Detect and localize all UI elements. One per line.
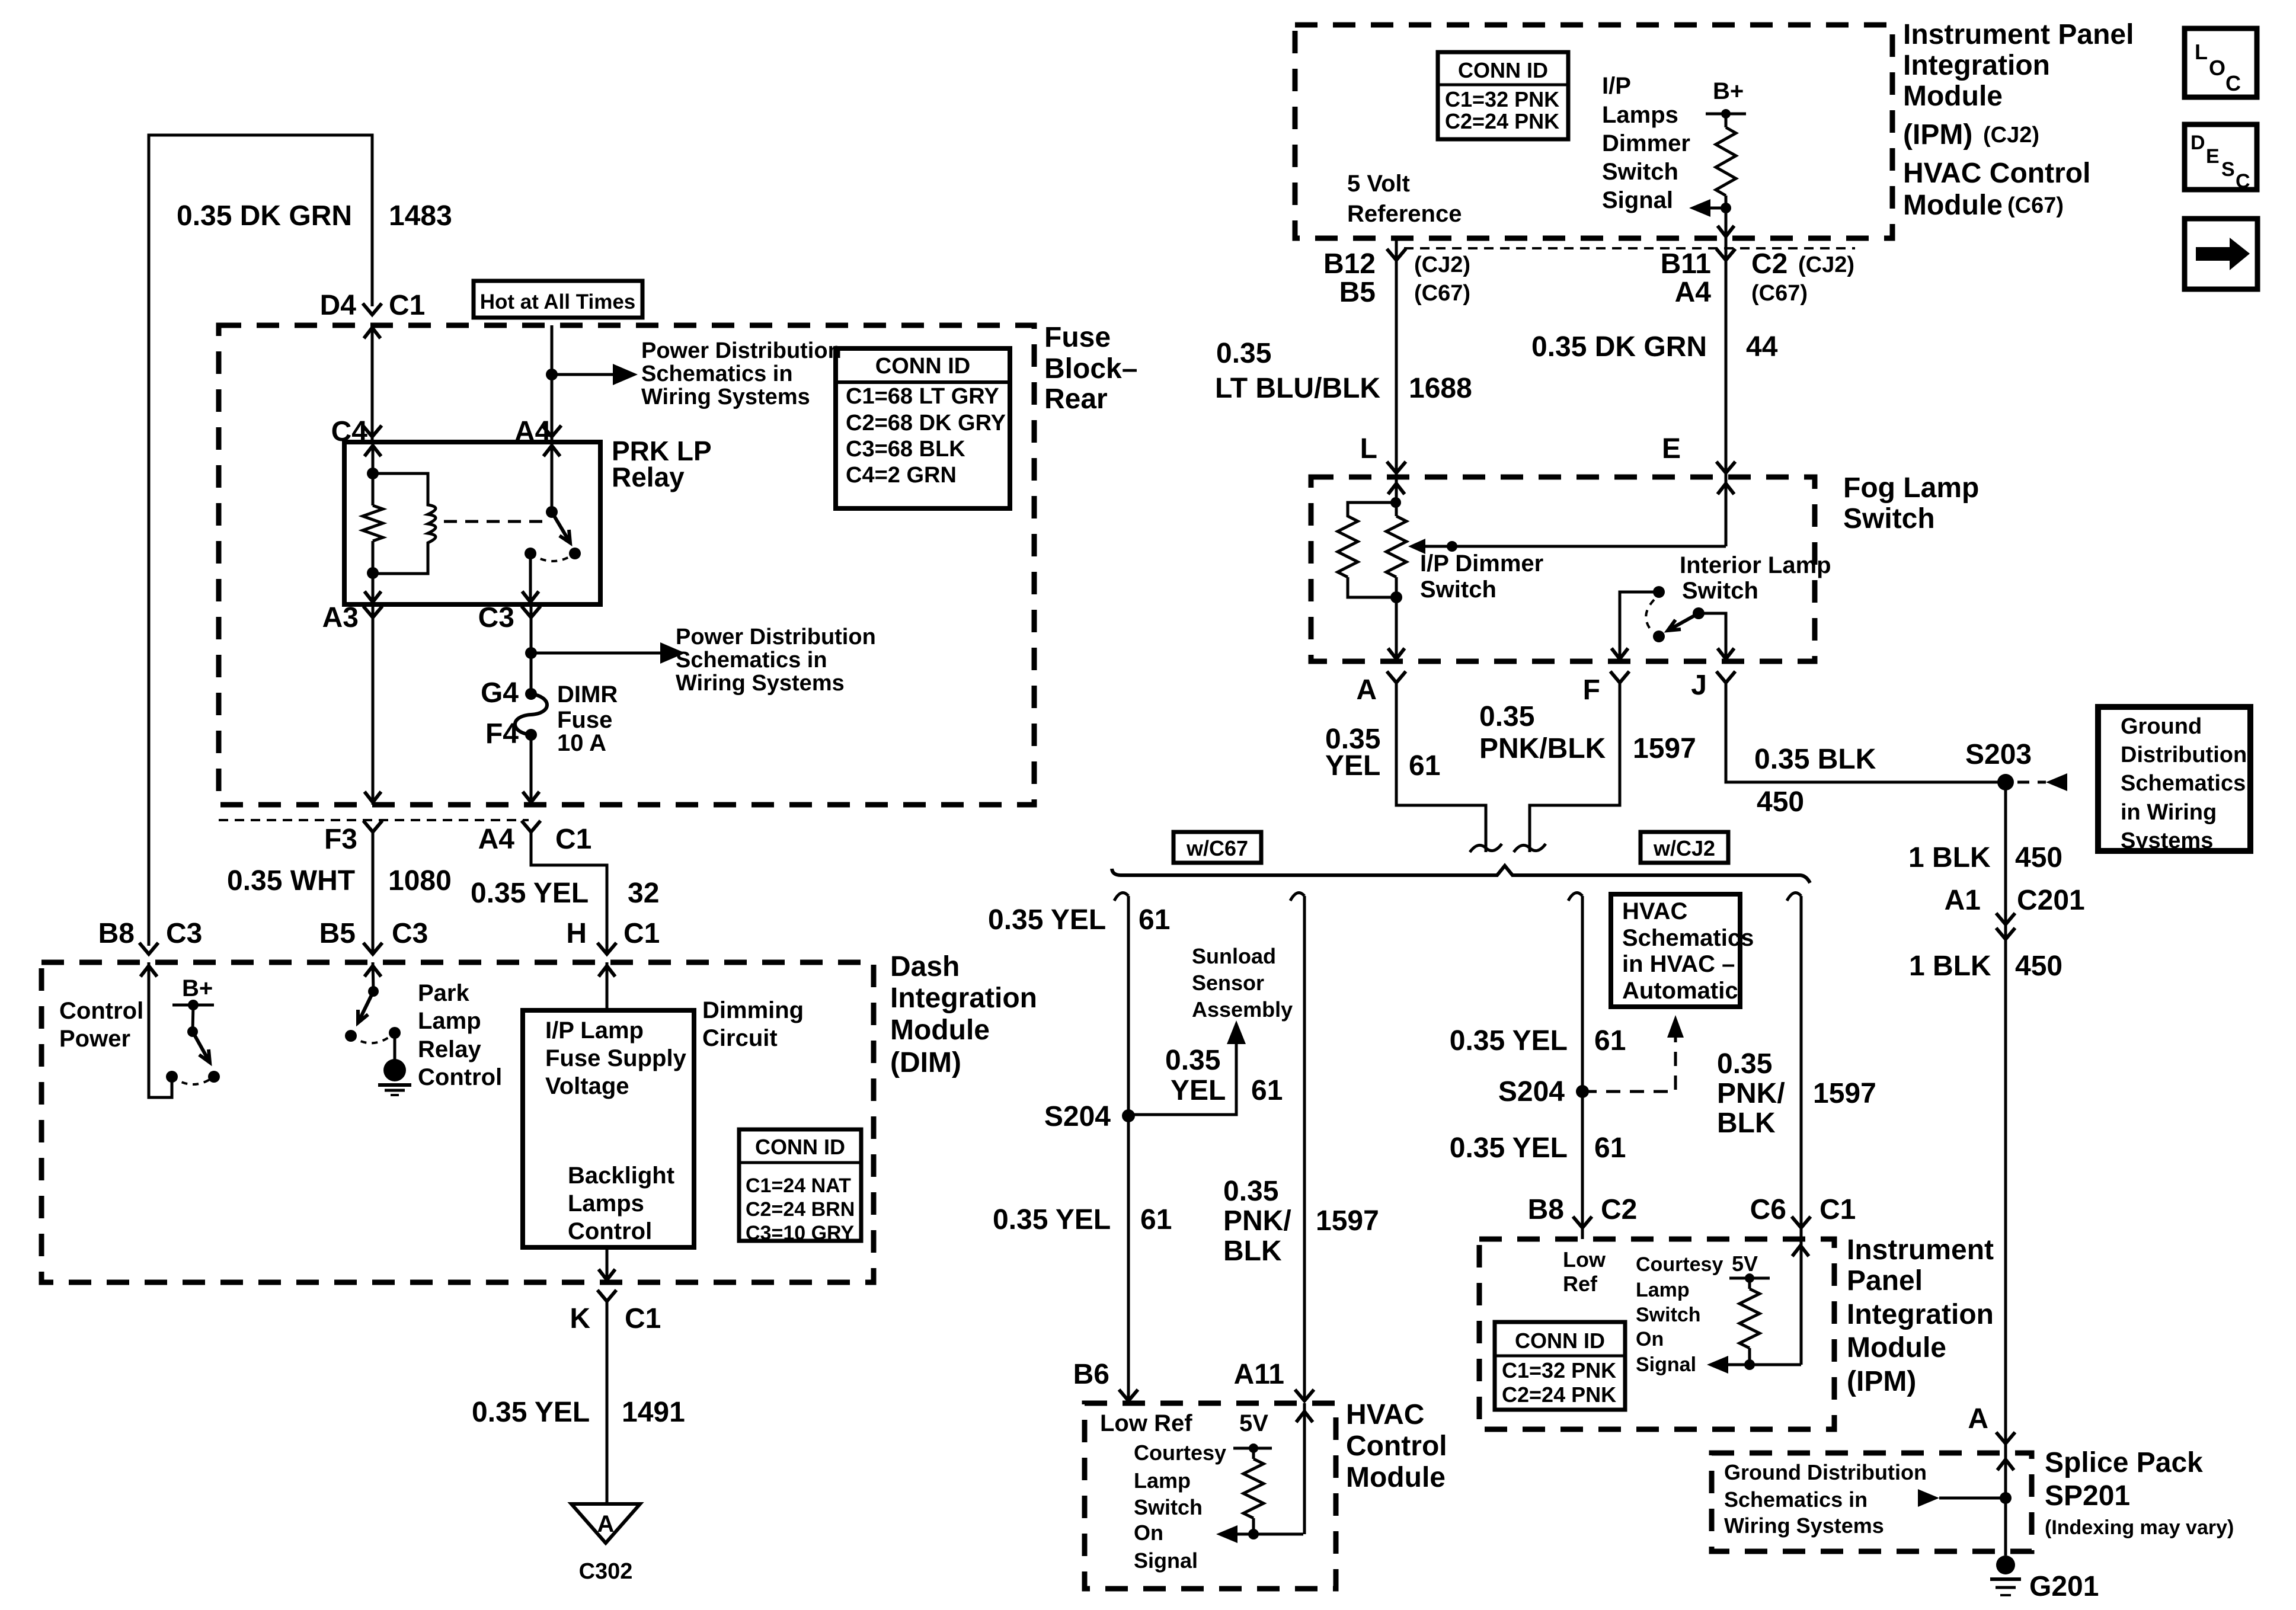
- wire D4 into fuse block: [371, 325, 374, 442]
- arrow from ground distribution to splice: [1918, 1489, 2006, 1507]
- courtesy signal dot HVAC: [1248, 1529, 1259, 1539]
- svg-text:C302: C302: [579, 1559, 633, 1584]
- wire interior switch to F: [1620, 592, 1659, 661]
- svg-text:(DIM): (DIM): [890, 1047, 961, 1078]
- B+ terminal bar: [172, 1004, 214, 1007]
- park lamp switch contact dot left: [345, 1030, 357, 1042]
- svg-text:61: 61: [1251, 1075, 1283, 1106]
- arrow up at fuse block top edge: [364, 328, 380, 338]
- relay switch contact dot right: [569, 548, 581, 559]
- svg-text:Switch: Switch: [1134, 1495, 1203, 1519]
- arrow down fog exit A: [1388, 648, 1405, 659]
- connector chevron B8 IPM: [1573, 1217, 1592, 1228]
- break symbol F wire: [1514, 844, 1546, 852]
- svg-text:YEL: YEL: [1325, 750, 1380, 782]
- svg-text:Lamp: Lamp: [418, 1008, 481, 1034]
- svg-text:5 Volt: 5 Volt: [1347, 171, 1410, 197]
- connector chevron E: [1716, 462, 1735, 473]
- svg-text:450: 450: [2015, 842, 2062, 873]
- courtesy signal arrow IPM: [1707, 1356, 1801, 1374]
- svg-text:61: 61: [1594, 1132, 1626, 1164]
- harness brace: [1112, 866, 1810, 883]
- fuse DIMR terminal dot F4: [525, 729, 537, 741]
- PRK LP relay box: [344, 442, 600, 604]
- fuse block connector face dashed line: [219, 819, 529, 821]
- svg-text:PNK/BLK: PNK/BLK: [1479, 733, 1606, 764]
- text power distribution upper: [641, 338, 842, 409]
- svg-text:Switch: Switch: [1420, 577, 1496, 603]
- rheostat bottom dot: [1390, 591, 1402, 603]
- svg-text:C: C: [2225, 71, 2241, 95]
- park lamp switch contact dot right: [389, 1027, 401, 1039]
- svg-text:Integration: Integration: [890, 982, 1037, 1014]
- svg-text:C1: C1: [625, 1303, 661, 1334]
- text Low Ref IPM: [1563, 1247, 1606, 1296]
- svg-text:0.35 BLK: 0.35 BLK: [1754, 744, 1876, 775]
- svg-text:CONN ID: CONN ID: [1515, 1329, 1605, 1353]
- wire YEL 61 CJ2: [1581, 896, 1584, 1239]
- svg-text:A: A: [1968, 1403, 1988, 1435]
- wire K to C302: [606, 1301, 609, 1503]
- svg-text:Schematics in: Schematics in: [676, 648, 827, 673]
- label wire 0.35 PNK/BLK 1597 fog: [1479, 701, 1696, 764]
- text Control Power: [59, 998, 143, 1052]
- label wire 0.35 DK GRN 44: [1531, 331, 1778, 363]
- dimmer wiper arrow: [1408, 539, 1726, 554]
- module label Dash Integration Module (DIM): [890, 951, 1037, 1078]
- hang curl YEL C67: [1114, 893, 1128, 901]
- CONN ID table IPM top: [1438, 52, 1568, 139]
- relay resistor element: [363, 473, 383, 573]
- svg-text:(C67): (C67): [1414, 281, 1470, 306]
- svg-text:Signal: Signal: [1636, 1353, 1696, 1376]
- connector chevron B12: [1387, 249, 1406, 260]
- arrow down fog exit J: [1718, 648, 1734, 659]
- svg-text:DIMR: DIMR: [557, 681, 618, 708]
- interior lamp switch dashed travel arc: [1646, 600, 1654, 632]
- svg-text:(C67): (C67): [2007, 193, 2064, 218]
- text Sunload Sensor Assembly: [1192, 944, 1293, 1022]
- arrow HVAC schematics: [1667, 1015, 1684, 1038]
- svg-text:(CJ2): (CJ2): [1414, 252, 1470, 277]
- rheostat variable element: [1386, 502, 1406, 597]
- svg-text:(CJ2): (CJ2): [1983, 123, 2039, 148]
- svg-text:C1=24 NAT: C1=24 NAT: [746, 1174, 851, 1197]
- svg-text:S204: S204: [1044, 1101, 1111, 1132]
- svg-text:I/P Lamp: I/P Lamp: [545, 1017, 644, 1044]
- label wire 0.35 YEL 32: [471, 878, 659, 909]
- CONN ID table fuse block: [836, 348, 1010, 508]
- dimming circuit box: [523, 1010, 694, 1247]
- park lamp switch blade arrow: [358, 991, 373, 1023]
- connector chevron A3: [363, 606, 382, 617]
- svg-text:L: L: [2195, 40, 2208, 64]
- arrow up relay switch side: [543, 446, 560, 456]
- connector chevron A4 relay top: [542, 425, 561, 437]
- w/C67 label box: [1173, 832, 1261, 863]
- svg-text:A11: A11: [1234, 1359, 1284, 1390]
- label 0.35 YEL 61 CJ2 upper: [1450, 1025, 1626, 1057]
- svg-text:Lamp: Lamp: [1134, 1468, 1191, 1493]
- svg-text:(IPM): (IPM): [1903, 119, 1972, 151]
- splice junction dot SP201: [2000, 1492, 2012, 1504]
- dashed link S203 to ground distribution: [2017, 781, 2046, 784]
- text I/P Lamps Dimmer Switch Signal: [1602, 73, 1690, 213]
- connector chevron H: [597, 943, 616, 954]
- svg-text:Reference: Reference: [1347, 201, 1462, 227]
- svg-text:HVAC: HVAC: [1622, 898, 1687, 924]
- text I/P Dimmer Switch: [1420, 550, 1543, 603]
- svg-text:On: On: [1134, 1521, 1163, 1545]
- next page arrow box: [2185, 219, 2257, 289]
- interior lamp switch contact dot lower: [1653, 630, 1665, 642]
- courtesy resistor IPM: [1739, 1278, 1760, 1365]
- svg-text:B5: B5: [319, 918, 356, 949]
- svg-text:Lamps: Lamps: [1602, 102, 1678, 128]
- connector chevron A11: [1295, 1390, 1314, 1401]
- svg-text:A: A: [1356, 674, 1377, 706]
- junction dot coil bottom: [367, 567, 379, 579]
- svg-text:Ref: Ref: [1563, 1272, 1598, 1296]
- connector C302 triangle A: [571, 1504, 640, 1543]
- svg-text:0.35 YEL: 0.35 YEL: [1450, 1025, 1568, 1057]
- wiper junction dot: [1447, 541, 1457, 552]
- svg-text:Assembly: Assembly: [1192, 997, 1293, 1022]
- wire A to bus break: [1396, 683, 1486, 852]
- connector chevron F fog: [1610, 671, 1629, 683]
- arrow down IPM bottom B11: [1718, 226, 1734, 236]
- wire B11 to E: [1725, 238, 1728, 477]
- label 0.35 YEL 61 C67 upper: [988, 904, 1170, 936]
- arrow up DIM entry B8: [140, 966, 157, 977]
- svg-text:I/P Dimmer: I/P Dimmer: [1420, 550, 1543, 577]
- IPM connector face dashed line: [1404, 247, 1855, 249]
- wire dimmer signal down: [1725, 208, 1728, 238]
- svg-text:61: 61: [1409, 750, 1440, 782]
- svg-text:L: L: [1360, 433, 1377, 465]
- connector chevron K: [597, 1290, 616, 1301]
- wire hot feed to relay A4: [551, 325, 554, 442]
- svg-text:(CJ2): (CJ2): [1798, 252, 1854, 277]
- svg-text:Panel: Panel: [1847, 1265, 1923, 1297]
- svg-text:C3=68 BLK: C3=68 BLK: [846, 437, 965, 462]
- courtesy signal arrow HVAC: [1216, 1525, 1303, 1543]
- svg-text:PNK/: PNK/: [1717, 1078, 1785, 1109]
- svg-text:C3: C3: [392, 918, 428, 949]
- svg-text:1 BLK: 1 BLK: [1908, 842, 1991, 873]
- svg-text:A4: A4: [478, 824, 515, 855]
- 5V dot HVAC: [1249, 1443, 1258, 1453]
- fuse DIMR terminal dot G4: [525, 688, 537, 700]
- svg-text:0.35 YEL: 0.35 YEL: [471, 878, 589, 909]
- connector chevron B6: [1119, 1390, 1138, 1401]
- relay switch dashed travel arc: [530, 553, 575, 561]
- relay switch pivot dot: [546, 506, 558, 518]
- svg-text:B12: B12: [1323, 248, 1376, 280]
- arrow up DIM entry B5: [364, 966, 381, 977]
- svg-text:Instrument: Instrument: [1847, 1234, 1994, 1266]
- label wire 0.35 YEL 61 fog: [1325, 724, 1440, 782]
- interior lamp switch blade arrow: [1668, 613, 1699, 630]
- svg-text:Low Ref: Low Ref: [1100, 1410, 1192, 1436]
- svg-text:Module: Module: [1847, 1332, 1946, 1363]
- svg-text:G201: G201: [2029, 1571, 2099, 1602]
- svg-text:I/P: I/P: [1602, 73, 1631, 99]
- svg-text:Switch: Switch: [1843, 503, 1935, 534]
- svg-text:Control: Control: [418, 1064, 502, 1090]
- svg-text:32: 32: [628, 878, 659, 909]
- text Ground Distribution Schematics in Wiring Systems: [1724, 1460, 1927, 1538]
- HVAC control module dashed outline: [1085, 1403, 1336, 1589]
- relay switch feed wire: [551, 442, 554, 512]
- svg-text:Backlight: Backlight: [568, 1163, 674, 1189]
- wire J to S203: [1726, 683, 2006, 782]
- 5V bar HVAC: [1233, 1447, 1272, 1450]
- DESC reference box: [2185, 124, 2257, 193]
- svg-text:Instrument Panel: Instrument Panel: [1903, 19, 2134, 50]
- arrow to power distribution (lower): [660, 642, 685, 664]
- svg-text:HVAC Control: HVAC Control: [1903, 158, 2090, 189]
- svg-text:Integration: Integration: [1847, 1299, 1994, 1330]
- svg-text:Block–: Block–: [1044, 353, 1137, 385]
- svg-text:Sensor: Sensor: [1192, 971, 1264, 995]
- wire L into rheostat: [1395, 477, 1398, 502]
- B+ stem wire: [193, 1005, 193, 1032]
- svg-text:Fuse Supply: Fuse Supply: [545, 1045, 687, 1071]
- svg-text:0.35 YEL: 0.35 YEL: [993, 1204, 1111, 1235]
- wire A3 down fuse block: [372, 604, 375, 805]
- svg-text:Switch: Switch: [1682, 578, 1758, 604]
- label 0.35 PNK/BLK 1597 CJ2: [1717, 1048, 1876, 1139]
- label 1 BLK 450 upper: [1908, 842, 2062, 873]
- svg-text:C1: C1: [1819, 1194, 1856, 1225]
- svg-text:F4: F4: [485, 718, 519, 750]
- wire rheostat out A: [1395, 597, 1398, 661]
- svg-text:G4: G4: [481, 677, 519, 709]
- svg-text:Control: Control: [59, 998, 143, 1024]
- svg-text:C2=24 PNK: C2=24 PNK: [1445, 109, 1559, 133]
- ground G201 symbol: [1990, 1555, 2021, 1595]
- svg-text:1597: 1597: [1316, 1205, 1379, 1237]
- ground symbol park lamp: [378, 1059, 411, 1095]
- svg-text:Lamp: Lamp: [1636, 1279, 1690, 1301]
- svg-text:E: E: [1662, 433, 1681, 465]
- wire F to bus break: [1530, 683, 1620, 852]
- wire F3 to B5: [372, 832, 375, 954]
- text I/P Lamp Fuse Supply Voltage: [545, 1017, 687, 1099]
- hang curl PNK C67: [1290, 893, 1304, 901]
- wire F4 down: [530, 735, 533, 805]
- B+ dot IPM: [1721, 109, 1731, 119]
- svg-text:0.35 WHT: 0.35 WHT: [227, 865, 355, 897]
- arrow up fog entry L: [1388, 484, 1405, 494]
- svg-text:A3: A3: [322, 602, 359, 633]
- svg-text:1080: 1080: [388, 865, 452, 897]
- svg-text:10 A: 10 A: [557, 730, 606, 756]
- arrow to ground distribution left: [2046, 773, 2067, 791]
- text Backlight Lamps Control: [568, 1163, 674, 1244]
- arrow up relay coil side: [364, 446, 381, 456]
- break symbol A wire: [1470, 844, 1502, 852]
- svg-text:HVAC: HVAC: [1346, 1399, 1424, 1430]
- svg-text:BLK: BLK: [1717, 1108, 1776, 1139]
- label 0.35 YEL 61 C67 lower: [993, 1204, 1172, 1235]
- arrow up DIM entry H: [599, 966, 615, 977]
- svg-text:Power: Power: [59, 1026, 130, 1052]
- hang curl YEL CJ2: [1568, 893, 1582, 901]
- svg-text:Relay: Relay: [418, 1036, 481, 1062]
- CONN ID table IPM lower: [1495, 1322, 1625, 1410]
- svg-text:1491: 1491: [622, 1397, 685, 1428]
- connector chevron A splice: [1996, 1432, 2015, 1443]
- relay switch contact dot left: [525, 548, 536, 559]
- svg-text:Park: Park: [418, 980, 469, 1006]
- svg-text:Control: Control: [1346, 1430, 1447, 1462]
- dimmer rheostat IPM: [1716, 114, 1736, 208]
- svg-text:Power Distribution: Power Distribution: [676, 625, 876, 649]
- label wire 0.35 YEL 1491: [472, 1397, 685, 1428]
- svg-text:Schematics in: Schematics in: [1724, 1487, 1868, 1512]
- svg-text:C3: C3: [166, 918, 202, 949]
- svg-text:Control: Control: [568, 1218, 652, 1244]
- branch wire to power distribution (lower): [531, 652, 660, 655]
- svg-text:Module: Module: [1903, 81, 2003, 112]
- connector chevron B8: [139, 943, 158, 954]
- fuse label DIMR Fuse 10 A: [557, 681, 618, 756]
- svg-text:A4: A4: [1675, 277, 1712, 308]
- control power switch contact dot right: [208, 1071, 220, 1083]
- module label Instrument Panel Integration Module (IPM): [1847, 1234, 1994, 1397]
- svg-text:C2=24 BRN: C2=24 BRN: [746, 1198, 855, 1221]
- svg-text:C1=68 LT GRY: C1=68 LT GRY: [846, 384, 999, 409]
- svg-text:450: 450: [2015, 950, 2062, 982]
- svg-text:Rear: Rear: [1044, 383, 1108, 415]
- connector chevron C201 double: [1996, 913, 2015, 939]
- svg-text:B+: B+: [182, 975, 213, 1001]
- svg-text:LT BLU/BLK: LT BLU/BLK: [1215, 373, 1380, 404]
- svg-text:(C67): (C67): [1751, 281, 1808, 306]
- label 0.35 YEL 61 CJ2 lower: [1450, 1132, 1626, 1164]
- park lamp ground stem: [394, 1033, 396, 1060]
- svg-text:0.35 YEL: 0.35 YEL: [472, 1397, 590, 1428]
- wire H to dimming circuit: [606, 962, 609, 1010]
- svg-text:1597: 1597: [1633, 733, 1696, 764]
- svg-text:J: J: [1691, 670, 1707, 701]
- svg-text:B11: B11: [1661, 248, 1711, 280]
- svg-text:Sunload: Sunload: [1192, 944, 1276, 968]
- svg-text:Signal: Signal: [1134, 1548, 1198, 1573]
- svg-text:S: S: [2221, 158, 2235, 181]
- connector chevron L: [1387, 462, 1406, 473]
- svg-text:Courtesy: Courtesy: [1134, 1441, 1226, 1465]
- w/CJ2 label box: [1641, 832, 1728, 863]
- fog lamp switch dashed outline: [1311, 477, 1815, 661]
- connector chevron B11: [1716, 249, 1735, 260]
- svg-text:0.35: 0.35: [1479, 701, 1534, 732]
- svg-text:Module: Module: [890, 1014, 990, 1046]
- svg-text:0.35 YEL: 0.35 YEL: [1450, 1132, 1568, 1164]
- relay coil branch wire upper: [372, 442, 375, 473]
- wire E to wiper: [1725, 477, 1728, 546]
- svg-text:(Indexing may vary): (Indexing may vary): [2045, 1516, 2234, 1539]
- svg-text:1597: 1597: [1813, 1078, 1876, 1109]
- 5V dot IPM: [1745, 1273, 1754, 1283]
- svg-text:SP201: SP201: [2045, 1480, 2130, 1512]
- svg-text:1688: 1688: [1409, 373, 1472, 404]
- dimmer signal left arrow: [1689, 199, 1726, 217]
- svg-text:Hot at All Times: Hot at All Times: [480, 290, 636, 313]
- relay coil-switch dashed link: [444, 520, 544, 523]
- dimmer wiper dot IPM: [1721, 203, 1731, 213]
- arrow down fuse block bottom A3: [364, 792, 381, 802]
- svg-text:C3: C3: [478, 602, 514, 633]
- splice S203 dot: [1997, 774, 2014, 790]
- park lamp switch dashed travel arc: [351, 1033, 395, 1043]
- svg-text:Schematics in: Schematics in: [641, 361, 793, 386]
- svg-text:Lamps: Lamps: [568, 1190, 644, 1217]
- arrow down DIM bottom K: [599, 1269, 615, 1280]
- svg-text:K: K: [570, 1303, 590, 1334]
- svg-text:C6: C6: [1750, 1194, 1786, 1225]
- control power switch blade arrow: [193, 1032, 210, 1062]
- svg-text:44: 44: [1746, 331, 1778, 363]
- svg-text:450: 450: [1757, 786, 1804, 818]
- IPM lower dashed outline: [1479, 1239, 1834, 1429]
- svg-text:Relay: Relay: [612, 462, 685, 492]
- svg-text:Wiring Systems: Wiring Systems: [676, 671, 845, 696]
- text Park Lamp Relay Control: [418, 980, 502, 1090]
- arrow to power distribution (upper): [613, 364, 638, 385]
- text power distribution lower: [676, 625, 876, 696]
- svg-text:Switch: Switch: [1636, 1304, 1701, 1326]
- svg-text:Signal: Signal: [1602, 187, 1673, 213]
- text Courtesy Lamp Switch On Signal HVAC: [1134, 1441, 1226, 1573]
- svg-text:E: E: [2206, 145, 2220, 168]
- control power switch contact dot left: [166, 1071, 178, 1083]
- label 1 BLK 450 lower: [1909, 950, 2062, 982]
- label 0.35 YEL 61 sunload: [1165, 1045, 1283, 1106]
- connector chevron A4 lower: [522, 821, 541, 832]
- svg-text:B8: B8: [1528, 1194, 1564, 1225]
- interior lamp switch contact dot upper: [1653, 586, 1665, 598]
- wire A4 to H: [531, 832, 607, 954]
- relay coil element: [373, 473, 436, 574]
- HVAC Schematics in HVAC - Automatic box: [1611, 894, 1754, 1007]
- svg-text:0.35 DK GRN: 0.35 DK GRN: [177, 200, 352, 232]
- instrument panel integration module dashed outline: [1295, 25, 1892, 238]
- rheostat top dot: [1390, 497, 1401, 508]
- svg-text:(IPM): (IPM): [1847, 1366, 1916, 1397]
- svg-text:Splice Pack: Splice Pack: [2045, 1447, 2203, 1478]
- dashed riser to HVAC schematics: [1582, 1036, 1675, 1092]
- Hot at All Times box: [474, 281, 642, 318]
- wire B5 to park lamp switch: [373, 962, 373, 991]
- svg-text:61: 61: [1140, 1204, 1172, 1235]
- connector chevron J fog: [1716, 671, 1735, 683]
- svg-text:Fuse: Fuse: [557, 707, 612, 733]
- svg-text:5V: 5V: [1732, 1251, 1758, 1276]
- module label HVAC Control Module: [1346, 1399, 1447, 1493]
- svg-text:C4=2 GRN: C4=2 GRN: [846, 463, 957, 488]
- wire C6 inside IPM: [1800, 1232, 1803, 1365]
- svg-text:Courtesy: Courtesy: [1636, 1253, 1723, 1276]
- svg-text:C2: C2: [1601, 1194, 1637, 1225]
- svg-text:Interior Lamp: Interior Lamp: [1680, 552, 1831, 578]
- svg-text:Distribution: Distribution: [2121, 742, 2247, 767]
- svg-text:D: D: [2191, 132, 2205, 154]
- svg-text:C201: C201: [2017, 885, 2085, 916]
- svg-text:Ground Distribution: Ground Distribution: [1724, 1460, 1927, 1484]
